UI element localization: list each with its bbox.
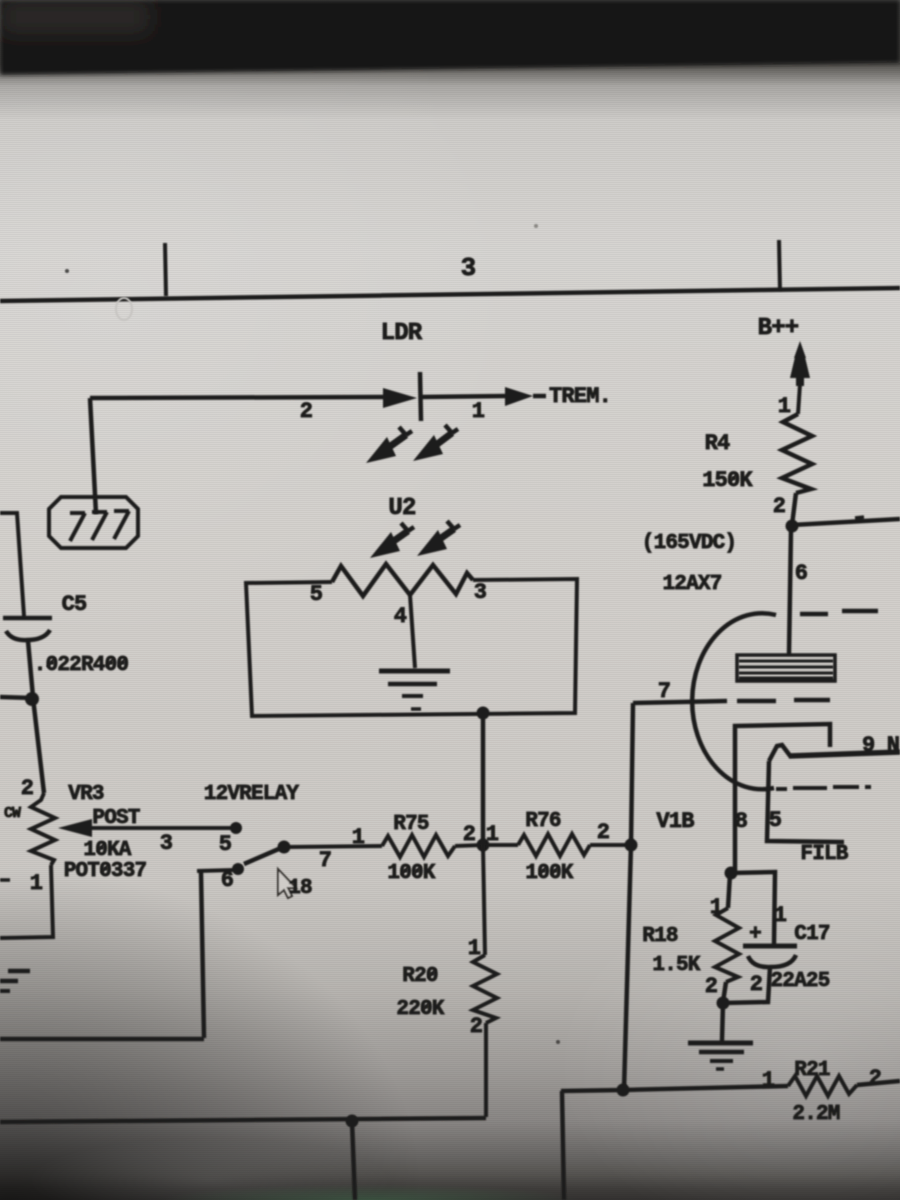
svg-text:R18: R18 — [642, 925, 678, 948]
relay pin 7 contact — [278, 841, 291, 854]
top border wire — [0, 288, 900, 301]
wire node to plate pin 6 — [789, 529, 791, 654]
wire junction down off screen — [352, 1121, 355, 1200]
svg-text:220K: 220K — [396, 998, 444, 1021]
light arrow B from LED — [432, 433, 452, 448]
svg-text:CW: CW — [4, 805, 21, 822]
svg-text:1: 1 — [762, 1068, 775, 1093]
svg-text:150K: 150K — [702, 468, 753, 493]
svg-text:7: 7 — [658, 679, 670, 704]
light arrow D into U2 — [434, 529, 454, 543]
svg-text:(165VDC): (165VDC) — [642, 532, 736, 555]
wire arrow to TREM label — [533, 394, 546, 399]
resistor R76 — [518, 834, 590, 856]
dust dot 3 — [534, 224, 538, 228]
ground symbol U2 — [379, 669, 450, 674]
B+ power arrow — [794, 341, 806, 358]
wire node to R21 — [623, 1086, 788, 1090]
wire C17 to ground node — [723, 967, 770, 1003]
capacitor C5 top plate — [3, 616, 52, 621]
ground symbol cathode — [688, 1041, 753, 1046]
junction node bottom rail — [346, 1115, 359, 1128]
wire U2 pin4 to ground — [410, 595, 415, 668]
monitor top bezel bar — [0, 0, 900, 75]
wire pin7 down to node — [631, 703, 633, 845]
svg-text:R21: R21 — [794, 1059, 830, 1082]
svg-text:3: 3 — [461, 253, 476, 283]
wire R18 to ground node — [723, 982, 726, 1002]
plate of V1B — [737, 655, 835, 681]
svg-text:2: 2 — [597, 820, 609, 845]
wire U2 node down to R75 node — [481, 713, 486, 845]
svg-text:POT0337: POT0337 — [64, 860, 147, 883]
wire R20 to bottom rail — [484, 1023, 488, 1117]
LED cathode bar — [420, 372, 421, 421]
VR3 wiper arrow — [58, 819, 92, 837]
dust dot — [65, 269, 69, 273]
junction node R75/R76/R20 — [477, 839, 490, 852]
wire top-left corner to C5 — [0, 513, 24, 616]
wire grid pin 7 — [633, 701, 727, 703]
svg-text:C17: C17 — [794, 923, 830, 946]
grid dashed line of V1B — [737, 700, 830, 701]
top border tick left — [165, 243, 166, 296]
resistor R4 — [782, 414, 812, 493]
potentiometer VR3 — [31, 793, 55, 865]
svg-text:C5: C5 — [62, 592, 87, 617]
wire pin5 to FILB — [767, 761, 844, 842]
dust smudge — [116, 298, 132, 320]
wire R76 to node — [590, 843, 631, 847]
stray dash left edge — [0, 878, 10, 882]
svg-text:1: 1 — [30, 871, 43, 896]
svg-text:5: 5 — [219, 832, 232, 857]
junction node ground — [717, 997, 730, 1010]
relay pin 6 contact — [232, 863, 244, 875]
svg-text:2: 2 — [705, 974, 717, 999]
cathode bar pin 8 — [735, 724, 830, 871]
svg-text:6: 6 — [795, 561, 807, 586]
svg-text:2.2M: 2.2M — [792, 1103, 839, 1126]
svg-text:2: 2 — [470, 1014, 482, 1039]
junction node cathode — [725, 867, 738, 880]
svg-text:R20: R20 — [402, 965, 438, 988]
wire node to VR3 — [33, 698, 44, 793]
wire pin6 to left edge — [0, 1037, 204, 1042]
mouse cursor — [278, 869, 296, 898]
wire R75 to node — [455, 845, 483, 846]
svg-text:12VRELAY: 12VRELAY — [204, 783, 300, 806]
wire R4 to node — [792, 493, 796, 525]
svg-text:8: 8 — [735, 809, 748, 834]
relay switch blade — [244, 848, 281, 864]
capacitor C17 top plate — [743, 944, 797, 949]
svg-text:2: 2 — [21, 776, 33, 801]
relay pin 5 contact — [230, 822, 242, 834]
svg-text:POST: POST — [92, 807, 139, 830]
svg-text:2: 2 — [773, 494, 785, 519]
svg-text:12AX7: 12AX7 — [662, 573, 721, 596]
svg-text:FILB: FILB — [800, 843, 848, 866]
photoresistor element U2 — [332, 564, 473, 596]
svg-text:1: 1 — [472, 399, 485, 424]
svg-text:LDR: LDR — [381, 320, 423, 347]
wire node to R76 — [483, 843, 518, 847]
jack J symbol — [49, 497, 138, 548]
dust dot 2 — [556, 1040, 560, 1044]
wire R21 to right edge — [857, 1081, 900, 1085]
stray tick above wire — [855, 517, 864, 518]
bottom rail left — [0, 1118, 486, 1122]
bezel corner highlight — [0, 0, 150, 34]
svg-text:U2: U2 — [388, 495, 415, 522]
wire wiper to relay pin 5 — [90, 826, 236, 830]
heater dashed line — [776, 787, 871, 789]
wire relay pin6 down — [201, 872, 204, 1038]
svg-text:TREM.: TREM. — [549, 384, 611, 409]
svg-text:1: 1 — [774, 903, 787, 928]
svg-text:7: 7 — [319, 848, 331, 873]
light arrow C into U2 — [388, 531, 408, 545]
signal arrow to TREM — [505, 387, 533, 406]
wire rail jog down — [561, 1090, 623, 1200]
resistor R75 — [382, 835, 455, 857]
svg-text:2: 2 — [869, 1066, 881, 1091]
light arrow A from LED — [385, 435, 406, 450]
capacitor C17 bottom plate — [748, 955, 796, 967]
svg-text:1: 1 — [352, 825, 365, 850]
ground symbol bottom-left — [8, 969, 30, 974]
junction node R4/plate — [786, 520, 799, 533]
resistor R21 — [788, 1076, 857, 1096]
svg-text:4: 4 — [394, 604, 407, 629]
wire node to C17 branch — [731, 872, 775, 945]
tube V1B envelope — [692, 613, 776, 789]
wire relay pin6 stub — [197, 870, 234, 871]
wire LED to TREM arrow — [421, 396, 505, 397]
svg-text:3: 3 — [160, 831, 173, 856]
LED U2 diode arrow — [383, 388, 417, 408]
junction node C5 — [25, 692, 39, 706]
capacitor C5 bottom plate — [6, 630, 50, 640]
wire node to left edge — [0, 697, 33, 698]
svg-text:VR3: VR3 — [68, 783, 104, 806]
slashed zeros overlay — [401, 866, 409, 875]
svg-text:3: 3 — [474, 580, 487, 605]
junction node R76/pin7 — [625, 839, 638, 852]
svg-text:10KA: 10KA — [83, 839, 131, 862]
U2 box — [246, 579, 577, 716]
resistor R18 — [715, 908, 739, 982]
junction node U2 box bottom — [477, 707, 490, 720]
svg-text:B++: B++ — [758, 315, 799, 342]
svg-text:2: 2 — [300, 399, 312, 424]
svg-text:18: 18 — [288, 877, 312, 900]
svg-text:1: 1 — [778, 394, 791, 419]
wire B+ arrow to R4 — [798, 384, 800, 414]
svg-text:V1B: V1B — [656, 809, 694, 834]
wire relay pin7 to R75 — [288, 846, 382, 847]
svg-text:1.5K: 1.5K — [652, 954, 700, 977]
wire node to ground — [722, 1003, 723, 1041]
svg-text:9 N: 9 N — [862, 733, 899, 758]
svg-text:+: + — [749, 923, 761, 946]
wire node to R20 — [483, 845, 485, 955]
cathode hook and pin 9 wire — [769, 745, 791, 761]
svg-text:100K: 100K — [387, 862, 435, 885]
svg-text:5: 5 — [310, 582, 323, 607]
svg-text:22A25: 22A25 — [770, 970, 829, 993]
svg-text:2: 2 — [463, 822, 475, 847]
svg-text:2: 2 — [750, 972, 762, 997]
wire node down to bottom rail — [624, 845, 631, 1090]
resistor R20 — [473, 955, 497, 1023]
wire node to R18 — [728, 874, 730, 908]
svg-text:100K: 100K — [525, 862, 573, 885]
wire C5 to node — [28, 641, 33, 697]
top border tick right — [779, 240, 780, 292]
svg-text:5: 5 — [769, 808, 782, 833]
svg-text:R76: R76 — [525, 810, 561, 833]
wire LED left + drop to jack — [90, 397, 383, 514]
svg-text:R4: R4 — [705, 431, 730, 456]
upper dashed line right — [800, 611, 878, 614]
junction node R21 rail — [617, 1084, 630, 1097]
wire VR3 bottom to left edge — [0, 865, 53, 938]
wire node to right edge — [792, 519, 900, 525]
